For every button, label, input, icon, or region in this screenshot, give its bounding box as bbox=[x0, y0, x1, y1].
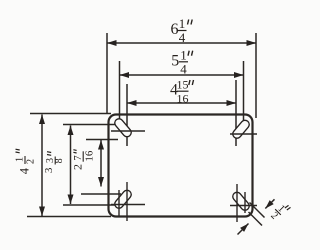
svg-text:2: 2 bbox=[26, 159, 37, 164]
svg-text:15: 15 bbox=[177, 78, 189, 92]
svg-text:1: 1 bbox=[15, 157, 26, 162]
svg-text:2: 2 bbox=[71, 164, 85, 170]
svg-text:16: 16 bbox=[177, 92, 189, 106]
svg-text:8: 8 bbox=[54, 158, 65, 163]
svg-text:4: 4 bbox=[18, 167, 32, 174]
svg-text:3: 3 bbox=[43, 167, 55, 173]
svg-text:7: 7 bbox=[73, 155, 84, 160]
svg-text:1: 1 bbox=[180, 47, 187, 62]
svg-text:2: 2 bbox=[268, 210, 279, 221]
svg-text:4: 4 bbox=[180, 61, 187, 76]
svg-text:5: 5 bbox=[171, 52, 179, 69]
svg-text:4: 4 bbox=[179, 30, 186, 45]
svg-text:6: 6 bbox=[171, 21, 179, 38]
svg-text:1: 1 bbox=[179, 16, 186, 31]
svg-text:16: 16 bbox=[83, 150, 95, 162]
